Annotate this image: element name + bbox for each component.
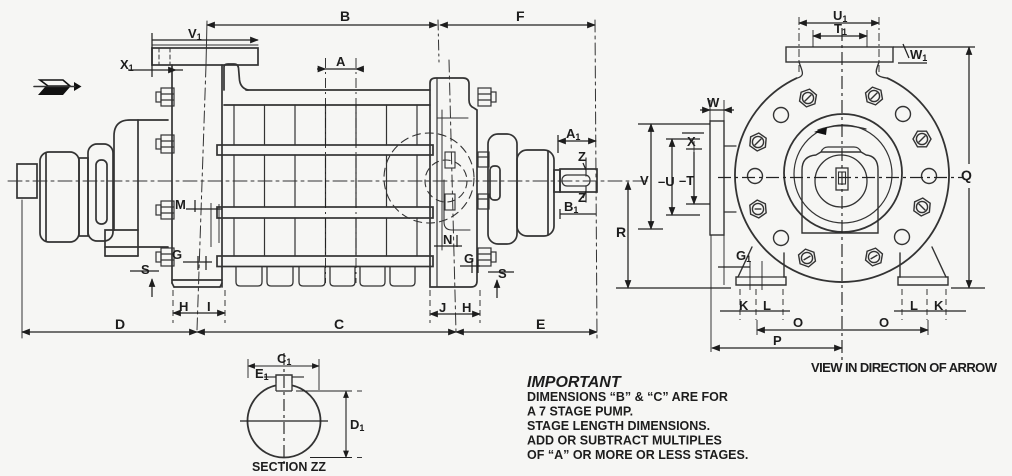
svg-text:M: M — [175, 197, 186, 212]
svg-text:O: O — [879, 315, 889, 330]
left flange plate — [710, 121, 724, 235]
shaft stub left — [17, 164, 37, 198]
rotation arrow — [818, 126, 866, 130]
dimension H I — [173, 312, 225, 314]
svg-text:L: L — [763, 298, 771, 313]
stage row 1 verticals — [234, 105, 417, 145]
coupling hub 1 — [40, 152, 79, 242]
bolt 112.5deg — [797, 88, 819, 109]
svg-text:J: J — [439, 300, 446, 315]
dimension S marks right — [488, 271, 514, 273]
dimension O O — [757, 329, 842, 331]
dimension F — [440, 24, 595, 26]
svg-text:A 7 STAGE PUMP.: A 7 STAGE PUMP. — [527, 405, 633, 419]
extension line D left — [21, 200, 23, 338]
inner circle 2 — [794, 125, 892, 223]
stage row 2 verticals — [234, 155, 417, 207]
dimension J H — [430, 313, 480, 315]
dimension D1 — [296, 390, 352, 392]
suction head bolts right face — [478, 88, 496, 266]
svg-text:G1: G1 — [736, 248, 751, 264]
dimension V1 — [152, 39, 258, 41]
dimension G marks right — [460, 265, 480, 267]
dimension L K right — [894, 310, 966, 312]
horizontal centerline — [718, 177, 963, 179]
shaft key block — [836, 168, 848, 190]
tie bar 1 — [217, 145, 433, 155]
dimension K L left — [720, 310, 790, 312]
suction centerline — [449, 60, 456, 332]
casing top plate — [246, 89, 430, 91]
left foot — [736, 247, 786, 285]
R dimension — [627, 182, 629, 288]
svg-text:G: G — [464, 251, 474, 266]
coupling spacer ring — [79, 158, 88, 236]
plain hole 135deg — [774, 108, 789, 123]
bolt 292.5deg — [863, 247, 885, 268]
impeller dashed circle small — [425, 160, 467, 202]
svg-text:O: O — [793, 315, 803, 330]
svg-text:–T: –T — [679, 173, 694, 188]
svg-text:B1: B1 — [564, 199, 578, 215]
svg-text:A1: A1 — [566, 126, 580, 142]
svg-text:D1: D1 — [350, 417, 364, 433]
right foot — [898, 247, 948, 285]
G marks end view — [718, 266, 750, 268]
svg-text:STAGE LENGTH DIMENSIONS.: STAGE LENGTH DIMENSIONS. — [527, 419, 710, 433]
dimension B1 — [560, 213, 596, 215]
bolt 67.5deg — [863, 86, 885, 107]
dimension A1 — [558, 140, 596, 142]
dimension V — [650, 124, 652, 229]
svg-text:H: H — [462, 300, 471, 315]
main shaft centerline — [8, 180, 648, 182]
bottom chamber squares — [236, 267, 415, 286]
arrow shaft — [34, 86, 75, 88]
dimension X1 leader — [128, 69, 176, 71]
svg-text:K: K — [934, 298, 944, 313]
tie bar 3 — [217, 256, 433, 267]
bolt 157.5deg — [746, 130, 770, 153]
svg-text:H: H — [179, 299, 188, 314]
dimension T1 — [813, 35, 867, 37]
dimension T — [693, 152, 695, 204]
dimension U1 — [799, 22, 879, 24]
svg-text:V1: V1 — [188, 26, 202, 42]
shaft stub right — [560, 169, 597, 192]
inner circle 1 — [784, 114, 902, 232]
bolts on end view — [746, 86, 936, 269]
discharge column centerline — [206, 21, 207, 65]
left flange necks — [724, 145, 736, 147]
svg-text:ADD OR SUBTRACT MULTIPLES: ADD OR SUBTRACT MULTIPLES — [527, 434, 722, 448]
svg-text:I: I — [207, 299, 211, 314]
tie bar 2 — [217, 207, 433, 218]
svg-text:R: R — [616, 224, 626, 240]
dimension W — [710, 109, 724, 111]
W1 marks — [903, 44, 909, 58]
section cut line Z — [585, 158, 587, 176]
svg-text:W: W — [707, 95, 720, 110]
svg-text:DIMENSIONS “B” & “C” ARE FOR: DIMENSIONS “B” & “C” ARE FOR — [527, 390, 728, 404]
svg-text:G: G — [172, 247, 182, 262]
plain hole 180deg — [748, 169, 763, 184]
E1 leader — [264, 376, 276, 378]
svg-text:L: L — [910, 298, 918, 313]
svg-text:A: A — [336, 54, 346, 69]
svg-text:V: V — [640, 173, 649, 188]
svg-text:IMPORTANT: IMPORTANT — [527, 374, 622, 391]
dimension P — [712, 347, 842, 349]
column bolts left face — [156, 88, 174, 266]
svg-text:N: N — [443, 232, 452, 247]
svg-text:Z: Z — [578, 149, 586, 164]
svg-text:X1: X1 — [120, 57, 134, 73]
bolt 337.5deg — [910, 195, 934, 218]
plain hole 225deg — [774, 231, 789, 246]
svg-text:OF “A” OR MORE OR LESS STAGES.: OF “A” OR MORE OR LESS STAGES. — [527, 448, 748, 462]
key — [276, 375, 292, 383]
left flange extensions down — [710, 235, 712, 352]
V top reference — [638, 123, 710, 125]
shaft section circle — [247, 385, 320, 457]
vertical centerline — [841, 28, 843, 360]
flow direction arrow symbol — [38, 80, 82, 95]
impeller dashed circle large — [384, 133, 474, 223]
coupling hub 2 — [88, 144, 113, 241]
Q extension top — [893, 46, 975, 48]
dimension B — [207, 24, 437, 26]
end view centerlines — [718, 28, 963, 360]
shaft end extension — [595, 20, 597, 338]
svg-text:S: S — [498, 266, 507, 281]
svg-text:C: C — [334, 316, 344, 332]
gland housing — [802, 152, 878, 233]
svg-text:C1: C1 — [277, 351, 291, 367]
suction head — [430, 78, 477, 287]
svg-text:E1: E1 — [255, 366, 269, 382]
svg-text:E: E — [536, 316, 545, 332]
svg-text:B: B — [340, 8, 350, 24]
dimension U — [671, 139, 673, 215]
side view label texts — [115, 8, 626, 332]
svg-text:X: X — [687, 134, 696, 149]
dimension Q — [968, 47, 970, 164]
svg-text:Q: Q — [961, 167, 972, 183]
svg-text:D: D — [115, 316, 125, 332]
svg-text:VIEW IN DIRECTION OF ARROW: VIEW IN DIRECTION OF ARROW — [811, 360, 998, 375]
bolt 247.5deg — [796, 248, 818, 269]
discharge flange plate — [152, 48, 258, 65]
plain hole 0deg — [922, 169, 937, 184]
bolt 202.5deg — [746, 197, 770, 220]
svg-text:F: F — [516, 8, 525, 24]
end view labels — [640, 8, 972, 348]
svg-text:S: S — [141, 262, 150, 277]
top neck right — [876, 62, 887, 78]
spacer ring right — [554, 170, 560, 192]
svg-text:W1: W1 — [910, 47, 927, 63]
discharge column — [171, 65, 173, 283]
plain hole 315deg — [895, 230, 910, 245]
shaft bore circle — [815, 155, 867, 207]
dimension A — [317, 68, 326, 70]
X marks — [682, 132, 704, 134]
bearing bracket right — [488, 134, 517, 244]
top flange — [786, 47, 893, 62]
svg-text:–U: –U — [658, 174, 675, 189]
plain hole 45deg — [896, 107, 911, 122]
dimension N marks — [456, 235, 458, 247]
Z leader marks — [583, 163, 586, 170]
dimension D C E baseline — [22, 331, 197, 333]
main casing circle — [735, 78, 949, 282]
dimension C1 — [248, 365, 319, 367]
bearing bracket left — [105, 120, 168, 247]
svg-text:SECTION ZZ: SECTION ZZ — [252, 459, 326, 474]
bolt 22.5deg — [913, 131, 931, 147]
B F boundary tick — [438, 20, 439, 62]
svg-text:Z: Z — [578, 190, 586, 205]
dimension S marks left — [130, 270, 159, 272]
coupling hub right — [517, 150, 554, 236]
top neck left — [797, 62, 803, 78]
casing inlet bump — [224, 64, 248, 90]
keyway — [562, 175, 590, 186]
section ZZ crosshair — [240, 420, 328, 422]
svg-text:P: P — [773, 333, 782, 348]
dimension G marks left — [183, 261, 212, 263]
svg-text:K: K — [739, 298, 749, 313]
dimension M marks — [194, 200, 196, 212]
stage row 3 verticals — [234, 218, 417, 256]
